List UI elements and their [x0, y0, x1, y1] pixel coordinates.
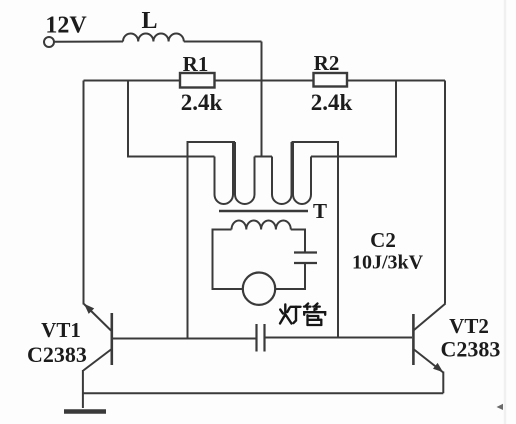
label 灯管 glyph 管	[304, 304, 325, 326]
wire VT1 base line	[113, 338, 257, 340]
svg-text:2.4k: 2.4k	[181, 90, 223, 115]
transistor VT1 arrow	[84, 304, 94, 314]
svg-text:T: T	[313, 199, 327, 223]
capacitor C2 plate top	[294, 251, 317, 253]
svg-text:12V: 12V	[45, 13, 87, 39]
terminal 12V input	[44, 37, 54, 47]
wire L to center tap corner	[184, 41, 262, 43]
ground	[64, 409, 106, 414]
wire VT1 emitter to ground	[82, 370, 84, 408]
wire primary tap to VT1 base vertical	[188, 142, 236, 339]
transistor VT2 emitter lead	[414, 350, 443, 373]
transformer T primary winding loop 4	[293, 142, 311, 204]
svg-text:R1: R1	[183, 52, 209, 76]
transformer T primary winding loop 3	[272, 142, 292, 204]
transistor VT1 base bar	[111, 313, 114, 365]
capacitor base coupling plate right	[263, 324, 265, 352]
svg-text:R2: R2	[314, 51, 340, 75]
svg-text:VT2: VT2	[449, 314, 489, 338]
svg-text:C2383: C2383	[27, 342, 87, 367]
wire primary center tap joiner	[255, 156, 273, 158]
transformer T primary winding loop 1	[215, 142, 234, 204]
transistor VT2 base bar	[412, 314, 415, 365]
wire lamp loop right bottom	[276, 263, 306, 289]
wire terminal to L	[55, 41, 124, 43]
resistor R2	[314, 73, 348, 87]
wire left branch to winding	[128, 81, 215, 157]
transistor VT1 collector lead	[84, 304, 111, 331]
transformer T core	[219, 210, 308, 213]
wire left rail to VT1 collector	[83, 81, 85, 305]
transistor VT2 collector lead	[414, 304, 446, 331]
wire right rail to VT2 collector	[444, 81, 446, 304]
wire primary tap to VT2 base vertical	[292, 142, 339, 338]
svg-text:VT1: VT1	[41, 318, 81, 342]
wire base rail left segment	[84, 80, 181, 82]
wire R1 to R2	[215, 80, 314, 82]
wire center tap vertical	[261, 42, 263, 157]
scan edge artifact	[504, 0, 507, 424]
transformer T primary winding loop 2	[235, 142, 255, 204]
svg-text:C2383: C2383	[441, 337, 501, 362]
capacitor C2 plate bottom	[294, 262, 317, 264]
scan mark arrow right edge	[497, 404, 504, 410]
svg-text:10J/3kV: 10J/3kV	[352, 252, 424, 274]
svg-text:L: L	[141, 8, 157, 34]
transistor VT2 arrow	[433, 363, 443, 372]
transistor VT1 emitter lead	[83, 350, 111, 371]
inductor L	[123, 33, 184, 41]
wire emitter rail bottom	[83, 392, 443, 394]
wire lamp loop right top	[291, 230, 305, 253]
resistor R1	[180, 73, 215, 88]
lamp 灯管 circle	[243, 273, 275, 305]
svg-text:2.4k: 2.4k	[311, 90, 353, 115]
wire R2 to right rail	[347, 80, 445, 82]
wire right branch to winding	[311, 81, 396, 157]
transformer T secondary winding	[232, 220, 291, 229]
wire VT2 base line	[265, 337, 413, 339]
label 灯管 glyph 灯	[280, 305, 301, 324]
capacitor base coupling plate left	[255, 324, 257, 352]
wire VT2 emitter to rail	[442, 372, 444, 394]
svg-text:C2: C2	[370, 228, 396, 252]
wire lamp loop left	[213, 230, 244, 290]
